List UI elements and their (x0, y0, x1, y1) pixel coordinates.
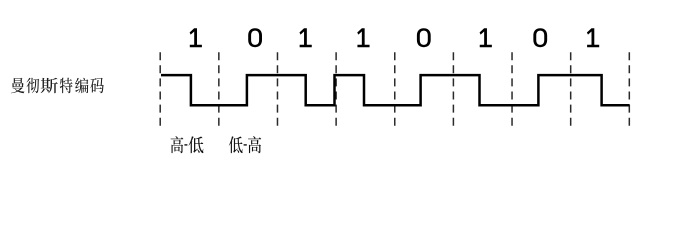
bit label 4: value 1 (357, 28, 369, 47)
caption text: 曼彻斯特编码 (Manchester encoding) (11, 78, 104, 94)
bit boundary dashed line 4 (394, 52, 396, 127)
legend: 低-高 (low-to-high = bit 0) (229, 136, 261, 153)
bit label 3: value 1 (299, 28, 311, 47)
bit boundary dashed line 7 (570, 52, 572, 127)
bit boundary dashed line 6 (511, 52, 513, 127)
bit boundary dashed line 5 (452, 52, 454, 127)
bit label 6: value 1 (480, 28, 492, 47)
Manchester encoded signal waveform (bits 1 0 1 1 0 1 0 1) (161, 75, 630, 105)
bit label 7: value 0 (533, 28, 547, 47)
bit boundary dashed line 1 (218, 52, 220, 127)
bit boundary dashed line 8 (628, 52, 630, 127)
bit label 2: value 0 (248, 28, 262, 47)
bit boundary dashed line 0 (159, 52, 161, 127)
bit label 8: value 1 (587, 28, 599, 47)
bit boundary dashed line 3 (335, 52, 337, 127)
bit boundary dashed line 2 (276, 52, 278, 127)
bit label 1: value 1 (190, 28, 202, 47)
legend: 高-低 (high-to-low = bit 1) (171, 136, 204, 153)
bit label 5: value 0 (417, 28, 431, 47)
